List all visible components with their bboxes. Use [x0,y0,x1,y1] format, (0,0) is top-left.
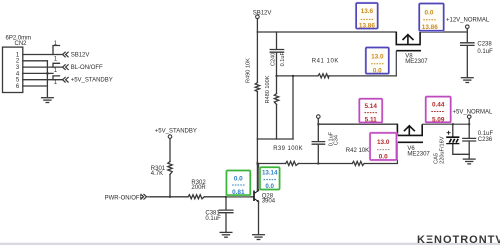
wire C238 to gnd [466,46,468,78]
capacitor C381 plates [219,210,233,213]
svg-text:KΞNOTRONTV: KΞNOTRONTV [417,234,500,245]
svg-text:5.11: 5.11 [365,117,378,124]
svg-text:0.0: 0.0 [373,68,382,75]
svg-text:+12V_NORMAL: +12V_NORMAL [446,18,490,24]
resistor R302 zigzag [188,195,204,199]
wire pin5 row [23,79,62,81]
resistor R490 zigzag [255,83,259,92]
measurement box B7 0.0/0.81 [227,171,251,197]
measurement box B2 0.0/13.86 [419,4,443,31]
resistor R480 zigzag [274,94,278,105]
svg-text:13.6: 13.6 [361,8,374,15]
svg-text:R41 10K: R41 10K [312,58,339,64]
svg-text:1: 1 [54,68,58,74]
svg-text:0.44: 0.44 [432,102,445,109]
svg-text:C34: C34 [333,135,339,145]
jumper stub pin3 [53,63,60,67]
wire C236 column upper [468,124,470,138]
resistor R39 zigzag [286,161,299,165]
plus sign CA5 [447,131,451,135]
svg-text:C238: C238 [477,42,492,48]
svg-text:CN2: CN2 [15,41,28,47]
junction dot C381/row [225,196,227,198]
wire PWR row left [151,196,189,198]
resistor R301 zigzag [168,162,172,175]
svg-text:R480 100K: R480 100K [265,75,271,103]
measurement box B8 13.14/0.0 [260,167,280,190]
capacitor C240 plates [270,50,283,53]
svg-text:0.0: 0.0 [234,175,243,182]
svg-text:4.7K: 4.7K [151,171,163,177]
svg-text:ME2307: ME2307 [405,59,428,65]
ground +12V [461,78,474,83]
wire stem circle to rail [317,118,319,124]
svg-text:+5V_STANDBY: +5V_STANDBY [155,129,197,135]
transistor V8 body [396,32,421,51]
wire +5V stem [468,119,470,125]
chevron +5V_STANDBY [63,77,69,83]
wire column R480 lower [276,104,278,139]
wire C236 to gnd [468,141,470,159]
capacitor C238 plates [461,43,474,46]
wire R41 row [277,75,397,77]
junction dot rail/C34 [317,123,319,125]
svg-text:13.0: 13.0 [377,139,390,146]
svg-text:3904: 3904 [262,198,276,204]
svg-text:SB12V: SB12V [71,53,90,59]
wire V6 out to +5V [422,123,469,125]
ground +5V [463,159,476,164]
wire CA5 stem top [452,124,454,136]
wire column C240/R480 mid [276,53,278,94]
ground CN2 [41,98,54,103]
jumper stub pin5 [53,76,60,80]
wire column R490 upper [256,32,258,83]
svg-text:0.0: 0.0 [265,183,274,190]
net port circle (R42 row / +5 rail) [317,115,321,119]
svg-text:220uF/16V: 220uF/16V [439,136,445,164]
resistor R42 zigzag [352,161,364,165]
wire pin6 row [23,85,48,87]
junction dot rail/CA5 [452,123,454,125]
gate bar V6 [397,141,423,143]
connector CN2 body [3,47,23,92]
wire PWR row right [204,196,253,198]
jumper stub pin1 [53,46,60,55]
ground Q28 emitter [252,235,265,240]
wire column C drop [292,76,294,139]
wire drop to R39 row [256,139,258,164]
svg-text:5.14: 5.14 [364,103,377,110]
svg-text:0.1uF: 0.1uF [477,49,493,55]
wire column C240/R480 upper [276,32,278,49]
junction dot row/C34 [317,163,319,165]
gate bar V8 [396,50,421,52]
svg-text:+5V_NORMAL: +5V_NORMAL [453,109,494,115]
svg-text:0.81: 0.81 [232,189,245,196]
wire V8 out to +12V [420,31,467,33]
svg-text:PWR-ON/OFF: PWR-ON/OFF [105,196,144,202]
svg-text:13.14: 13.14 [262,169,278,176]
ground C381 [220,232,233,237]
svg-text:SB12V: SB12V [253,10,272,16]
wire Q28 emitter down [258,202,260,235]
svg-text:BL-ON/OFF: BL-ON/OFF [71,65,103,71]
svg-text:R490 10K: R490 10K [245,58,251,83]
junction dot row/colA [256,163,258,165]
svg-text:1: 1 [54,80,58,86]
wire C34 column lower [317,145,319,164]
wire C381 stem upper [225,197,227,210]
wire Q28 collector up [258,164,260,191]
chevron PWR-ON/OFF [141,194,151,200]
svg-text:C240: C240 [271,53,277,66]
capacitor C34 plates [312,142,324,145]
chevron SB12V [63,52,69,58]
wire pin2 row [23,60,48,62]
junction CN2 pin4/gnd [46,72,48,74]
svg-text:0.1uF: 0.1uF [280,52,286,67]
wire SB12V stem [256,19,258,32]
svg-text:200R: 200R [191,185,206,191]
svg-text:0.0: 0.0 [379,154,388,161]
capacitor C236 plates [463,138,476,141]
svg-text:ME2307: ME2307 [407,152,430,158]
wire R301 stem lower [169,175,171,197]
junction dot R41/colB [276,75,278,77]
svg-text:C236: C236 [478,137,493,143]
wire +12V stem [466,29,468,43]
chevron BL-ON/OFF [63,64,69,70]
wire top rail to V8 [257,31,396,33]
svg-text:13.0: 13.0 [371,54,384,61]
svg-text:R42 10K: R42 10K [346,148,369,154]
wire C34 column upper [317,124,319,141]
svg-text:13.86: 13.86 [422,24,438,31]
transistor V6 body [397,124,423,142]
wire V6 gate drop [396,142,398,163]
wire +5 rail to V6 [318,123,397,125]
wire joiner y139 [257,138,293,140]
measurement box B1 13.6/13.86 [356,3,377,30]
junction dot +5 stem [468,123,470,125]
measurement box B6 13.0/0.0 [370,133,396,161]
svg-text:5.09: 5.09 [432,116,445,123]
resistor R41 zigzag [318,74,329,78]
wire CA5 bottom elbow [453,144,469,154]
junction dot R41/colC [292,75,294,77]
wire pin4 row [23,72,53,74]
bottom edge strip [0,243,500,245]
measurement box B3 13.0/0.0 [366,48,389,75]
wire column R490 lower [256,92,258,139]
wire R301 stem upper [169,138,171,161]
measurement box B4 5.14/5.11 [359,99,382,124]
junction dot R301/row [169,196,171,198]
svg-text:R39 100K: R39 100K [273,146,303,152]
wire Q28 collector column [256,164,258,191]
wire V8 gate drop [395,51,397,76]
wire pin3 row [23,66,62,68]
capacitor CA5 electrolytic symbol [446,131,459,144]
wire pin1 row [23,54,62,56]
svg-text:+5V_STANDBY: +5V_STANDBY [71,78,113,84]
transistor Q28 [254,191,259,202]
svg-text:13.86: 13.86 [359,23,375,30]
wire gnd column CN2 [46,61,48,97]
wire R39/R42 row [257,163,397,165]
measurement box B5 0.44/5.09 [426,97,451,124]
svg-text:0.1uF: 0.1uF [205,216,221,222]
wire C381 stem lower [225,213,227,232]
svg-text:0.0: 0.0 [425,10,434,17]
svg-text:1: 1 [54,57,58,63]
